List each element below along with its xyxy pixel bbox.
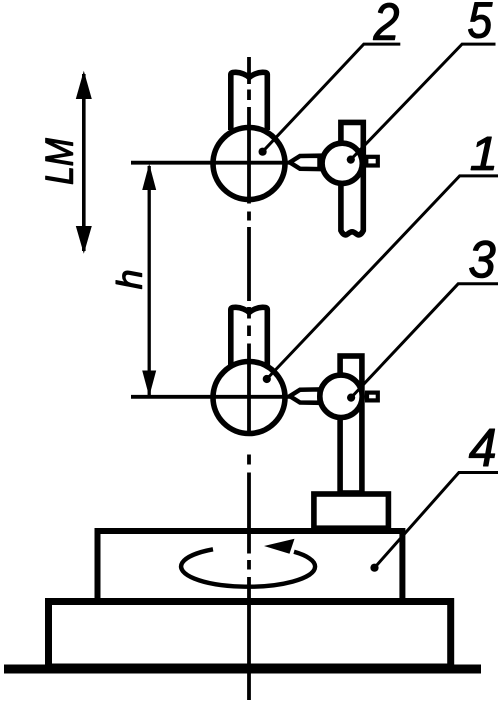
dimension h bottom arrowhead (142, 371, 156, 397)
leader 2 (263, 44, 401, 152)
probe 5 stylus (290, 156, 320, 169)
label 2 (373, 3, 398, 40)
leader dot 1 (263, 375, 271, 383)
sphere 2 (213, 128, 285, 200)
leader dot 2 (259, 148, 267, 156)
dimension h line (148, 166, 151, 395)
probe 3 base block (314, 494, 389, 528)
label 4 (469, 429, 495, 466)
label LM (46, 138, 73, 184)
instrument base (49, 602, 451, 668)
leader dot 3 (347, 394, 355, 402)
leader 3 (351, 284, 498, 398)
label 1 (471, 137, 494, 170)
leader dot 4 (370, 564, 378, 572)
label 5 (469, 3, 493, 39)
sphere 1 horizontal centerline (131, 395, 294, 399)
LM arrow bottom head (76, 226, 92, 254)
sphere 2 horizontal centerline (131, 161, 294, 165)
label h (116, 271, 142, 289)
rotation arrowhead (264, 539, 295, 554)
probe 3 column (340, 356, 362, 493)
rotary table (98, 531, 403, 601)
dimension h top arrowhead (142, 164, 156, 190)
LM motion arrow (82, 74, 86, 251)
leader 1 (267, 176, 498, 379)
label 3 (470, 241, 496, 278)
ground line (4, 665, 481, 674)
sphere 2 stem (231, 72, 267, 130)
leader 4 (375, 473, 498, 568)
probe 5 clamp (366, 157, 378, 166)
leader dot 5 (347, 156, 355, 164)
probe 5 dial (322, 143, 362, 183)
sphere 1 stem (231, 307, 267, 365)
probe 3 clamp (367, 393, 378, 401)
probe 5 column (341, 122, 363, 234)
sphere 1 (213, 362, 285, 434)
probe 3 dial (320, 375, 362, 417)
LM arrow top head (76, 71, 92, 99)
probe 3 stylus (290, 389, 320, 402)
rotation arrow arc (181, 549, 315, 586)
axis centerline (247, 57, 251, 700)
leader 5 (351, 44, 496, 160)
